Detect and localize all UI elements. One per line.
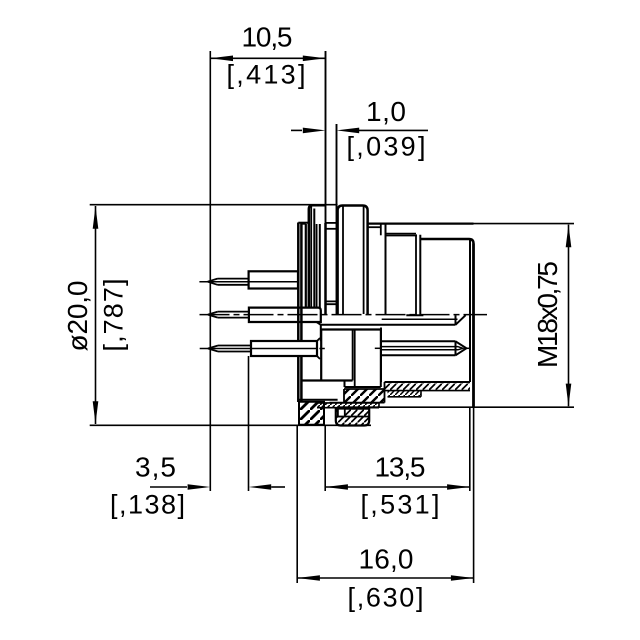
svg-text:1,0: 1,0 (366, 96, 406, 127)
dimension 10,5 top: inch text [,413] (227, 60, 306, 90)
thread shoulder right vertical / insert face upper half (385, 224, 387, 314)
dimension dia 20,0 bottom arrow (93, 401, 99, 424)
pin 2 taper tip (208, 312, 218, 318)
pin 2 mating tip chamfer (456, 315, 466, 325)
flange block A inner line (310, 206, 312, 307)
band D outline (317, 403, 379, 408)
mating pin (lower male contact) body (381, 341, 456, 355)
dimension 13,5: value text (375, 452, 426, 483)
dimension 13,5 left arrow (325, 484, 348, 490)
rear shell ledge top (298, 222, 309, 224)
dimension 3,5 right leader line (271, 486, 285, 488)
svg-text:[,413]: [,413] (227, 60, 306, 90)
dimension 16,0: inch text [,630] (348, 583, 424, 613)
hatch: band D (317, 403, 379, 408)
dimension dia 20,0: value text (rotated) (62, 281, 93, 352)
hatch: flange bottom block (299, 402, 324, 425)
dimension 16,0 line (297, 577, 473, 579)
svg-text:13,5: 13,5 (375, 452, 426, 483)
barrel bottom inner edge (mouth floor) (385, 381, 471, 383)
dimension 10,5 right arrow (303, 56, 326, 62)
dimension dia 20,0 top arrow (93, 206, 99, 229)
dimension M18 vertical line (568, 225, 570, 407)
carrier hatch band C outline (330, 382, 385, 403)
svg-text:3,5: 3,5 (135, 452, 176, 483)
gasket line 2 (316, 224, 318, 308)
dimension 1,0 left arrow (303, 128, 326, 134)
pin 1 (top solder tail) sleeve (249, 271, 298, 288)
thread bottom band R1 top handled by mouth floor; band R2 lower edge (385, 391, 471, 397)
thread runout line lower (386, 234, 418, 236)
top pin left edge above body (325, 51, 327, 223)
dimension dia 20,0: inch text [,787] (rotated) (99, 279, 129, 352)
hatch: thread step R2 (388, 391, 422, 397)
pin 3 shank (218, 346, 251, 352)
dimension dia 20,0 vertical line (95, 206, 97, 424)
mating pin inner step lines (381, 347, 463, 350)
dimension 1,0: inch text [,039] (347, 131, 426, 161)
rear shell inner wall (305, 224, 307, 308)
insert block divider pair (353, 330, 355, 388)
barrel top edge with corner (420, 239, 473, 244)
extension line x=248.5 below pin sleeve (248, 356, 250, 491)
thread section top edge (368, 223, 474, 225)
dimension M18x0,75: value text (rotated) (532, 261, 563, 368)
dimension 16,0 right arrow (451, 575, 474, 581)
pin 3 (bottom solder tail) sleeve (251, 341, 317, 356)
extension line x=469.8 below body (469, 407, 471, 491)
top pin left edge continuing down through body (324, 223, 327, 315)
collar corner edge below pin 2 (320, 325, 322, 342)
svg-text:M18x0,75: M18x0,75 (532, 261, 563, 368)
dimension 3,5 right arrow (249, 484, 272, 490)
thread shoulder left vertical (380, 224, 382, 236)
pin 2 collar bottom edge to mating side (321, 324, 456, 326)
insert block1 below centerline (301, 330, 381, 381)
dimension 16,0 left arrow (297, 575, 320, 581)
gasket line 1 (313, 209, 315, 308)
dimension 1,0 right leader line (359, 129, 428, 131)
thread section ledge (368, 226, 381, 228)
rear shell outer wall (thick pair) (298, 223, 301, 403)
extension line top of flange (90, 204, 338, 206)
dimension M18 top arrow (566, 225, 572, 248)
nut outline (rounded bottom) (336, 409, 369, 426)
barrel right outer edge (472, 244, 475, 408)
hatch: barrel bottom wall R1 (385, 382, 471, 391)
pin 2 half-pin inner line (382, 318, 458, 320)
pin 2 shank (218, 312, 249, 318)
dimension 3,5 left arrow (188, 484, 211, 490)
svg-text:[,531]: [,531] (361, 490, 440, 520)
insert cap B inner left line (342, 207, 344, 315)
barrel right inner edge (469, 240, 471, 382)
dimension 3,5: inch text [,138] (110, 490, 185, 520)
rear shell inner ledge (301, 223, 305, 225)
hatch: nut (336, 409, 369, 426)
extension line x=325 below body (324, 425, 326, 491)
extension line bottom of flange (90, 424, 371, 426)
pin 3 taper tip (208, 346, 218, 352)
svg-text:[,630]: [,630] (348, 583, 424, 613)
insert cap B (rounded top) (338, 206, 368, 315)
dimension M18 bottom arrow (566, 384, 572, 407)
dimension 1,0: value text (366, 96, 406, 127)
dimension 10,5 top: value text (242, 22, 293, 53)
pin 1 taper tip (208, 279, 218, 285)
svg-text:16,0: 16,0 (359, 544, 414, 575)
pin 3 axis line (200, 348, 317, 350)
dimension 1,0 right arrow (337, 128, 360, 134)
svg-text:ø20,0: ø20,0 (62, 281, 93, 352)
hatch: carrier band C (344, 389, 385, 403)
mating pin point (456, 341, 467, 355)
dimension 13,5 line (325, 486, 470, 488)
dimension 10,5 left arrow (210, 56, 233, 62)
dimension 10,5 line (210, 57, 325, 59)
dimension 3,5: value text (135, 452, 176, 483)
extension line M18 bottom (337, 406, 574, 408)
top pin seat notch upper (326, 222, 337, 224)
nut lip line (336, 416, 369, 418)
dimension 13,5 right arrow (447, 484, 470, 490)
pin 3 axis tick right of sleeve (319, 348, 324, 350)
top pin seat notch lower (326, 228, 337, 230)
extension line x=473.6 below body (473, 407, 475, 583)
top pin channel seat lines (326, 301, 337, 304)
extension line M18 top (474, 223, 575, 225)
pin 3 sleeve end flare (317, 338, 320, 359)
pin 2 (center solder tail) sleeve (249, 308, 321, 325)
pin 1 shank (218, 279, 249, 285)
mouth back wall pair (416, 235, 420, 315)
top pin right edge (336, 124, 338, 315)
extension line x=297.2 below flange (296, 426, 298, 583)
extension line left of 10,5 and 3,5 (x=210) (209, 51, 211, 491)
dimension 16,0: value text (359, 544, 414, 575)
insert front face below centerline (380, 328, 382, 383)
svg-text:[,039]: [,039] (347, 131, 426, 161)
center line (horizontal dash-dot) (200, 314, 488, 316)
mouth back wall bottom tick (406, 314, 423, 316)
dimension 13,5: inch text [,531] (361, 490, 440, 520)
insert block2 bottom edge (345, 330, 381, 388)
gasket line 3 (319, 224, 321, 308)
svg-text:10,5: 10,5 (242, 22, 293, 53)
pin 1 axis line (199, 281, 297, 283)
mating pin axis tick left (375, 347, 381, 349)
flange bottom hatched block outline (299, 402, 324, 425)
flange block A (rounded top-left) (309, 205, 326, 307)
svg-text:[,787]: [,787] (99, 279, 129, 352)
thread runout line upper (386, 233, 416, 235)
dimension 1,0 left leader line (291, 129, 302, 131)
svg-text:[,138]: [,138] (110, 490, 185, 520)
nut upper-left white pocket (338, 409, 345, 417)
dimension 3,5 left leader line (150, 486, 187, 488)
insert cap B inner right line (363, 207, 365, 315)
flange bottom inner line (298, 399, 337, 401)
mating pin axis tick right (466, 347, 470, 349)
